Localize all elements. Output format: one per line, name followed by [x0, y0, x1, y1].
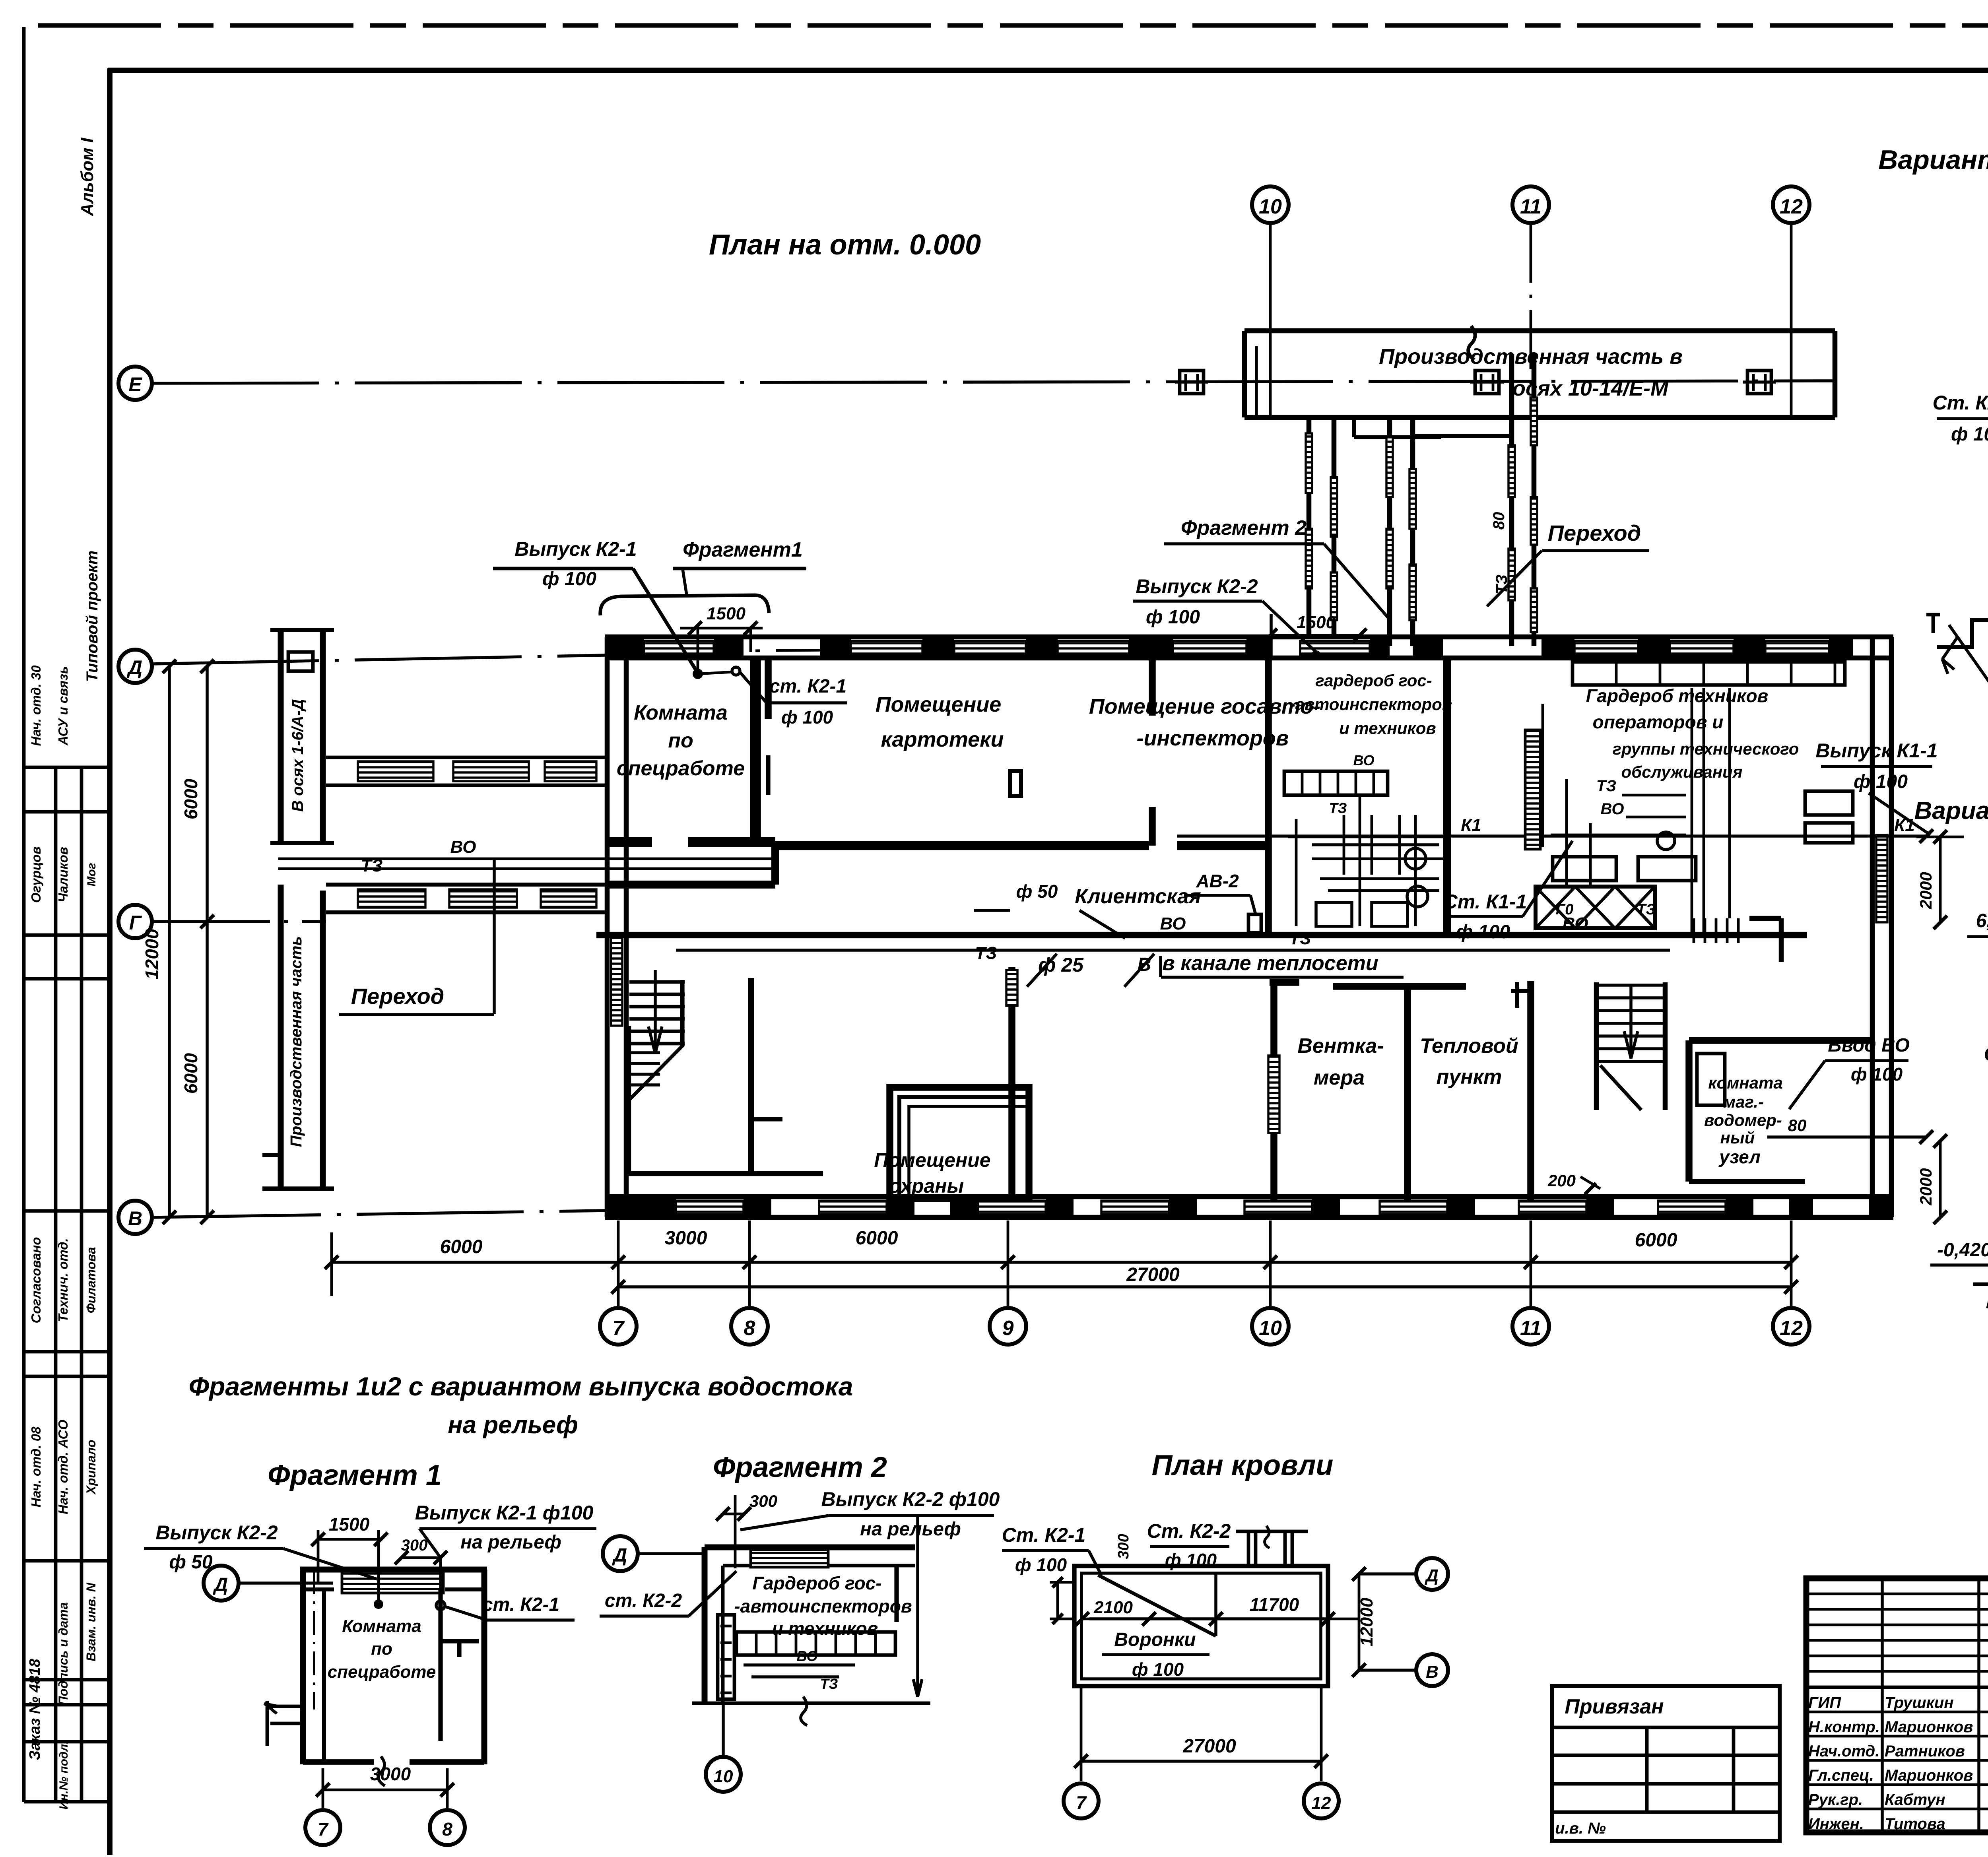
- svg-text:ТЗ: ТЗ: [975, 943, 997, 963]
- title signatures thin row 5: [1806, 1655, 1988, 1657]
- svg-text:Ин.№ подл.: Ин.№ подл.: [57, 1741, 70, 1810]
- svg-text:Выпуск К2-1: Выпуск К2-1: [514, 538, 637, 560]
- svg-text:Вариант выпуска водостока на р: Вариант выпуска водостока на рельеф: [1878, 145, 1988, 175]
- privyazan col line 2: [1732, 1727, 1736, 1812]
- fragment2 top wall inner: [723, 1564, 915, 1568]
- room spetsrabota bottom wall right part: [688, 837, 775, 847]
- perekhod A2 right wall: [1410, 417, 1415, 646]
- svg-text:Заказ № 4818: Заказ № 4818: [27, 1659, 43, 1760]
- roof bottom witness lines: [1080, 1686, 1083, 1781]
- axis column 12 circle (plan bottom): [1773, 1308, 1809, 1345]
- svg-text:2000: 2000: [1916, 872, 1935, 909]
- svg-text:В: В: [128, 1207, 142, 1230]
- wet core 1 circle fixture 2: [1407, 886, 1428, 907]
- svg-text:Переход: Переход: [1548, 520, 1641, 545]
- drawing frame left edge: [107, 68, 113, 1855]
- svg-text:9: 9: [1002, 1317, 1014, 1340]
- title signatures thin row 4: [1806, 1639, 1988, 1642]
- left stamp divider 6: [24, 1375, 110, 1378]
- wet core 1 pipe cross: [1320, 877, 1439, 880]
- schematic2 outfall arrow A: [1973, 1283, 1988, 1286]
- schematic1 outlet A arrow: [1942, 636, 1958, 659]
- title signatures thin row 2: [1806, 1608, 1988, 1611]
- admin top wall inner line: [605, 656, 1893, 661]
- roof axis V leader right: [1359, 1669, 1415, 1672]
- svg-text:Фрагменты 1и2 с вариантом выпу: Фрагменты 1и2 с вариантом выпуска водост…: [189, 1372, 853, 1401]
- middle vertical partition x=3190: [1265, 658, 1272, 938]
- axis column 10 circle (top): [1252, 186, 1289, 223]
- roof axis D leader right: [1359, 1572, 1415, 1576]
- svg-text:Ввод ВО: Ввод ВО: [1828, 1035, 1910, 1056]
- svg-text:80: 80: [1788, 1116, 1807, 1135]
- vertical pipe to Perekhod label: [493, 859, 496, 1014]
- svg-text:Ст. К2-1: Ст. К2-1: [1002, 1524, 1086, 1546]
- left corridor top cap: [270, 628, 334, 632]
- lower band bottom cap: [262, 1186, 334, 1191]
- vypusk K2-2 leader: [1262, 601, 1316, 652]
- bottom dim line row 1: [332, 1261, 1791, 1264]
- wall piece right of spetsrabota: [765, 658, 772, 719]
- fragment 2 callout leader: [1324, 544, 1390, 619]
- axis column 11 circle (plan bottom): [1512, 1308, 1549, 1345]
- svg-text:-инспекторов: -инспекторов: [1137, 726, 1289, 750]
- svg-text:В: В: [1426, 1662, 1439, 1682]
- svg-text:Фрагмент 1: Фрагмент 1: [268, 1459, 442, 1491]
- fragment1 riser2 vertical: [439, 1558, 442, 1605]
- shaft hatch strip: [1525, 730, 1540, 849]
- axis row G dash-dot line: [151, 920, 326, 923]
- st K2-1 underline: [767, 701, 847, 704]
- svg-text:Выпуск К2-2 ф100: Выпуск К2-2 ф100: [821, 1488, 1000, 1510]
- axis column 9 circle (plan bottom): [990, 1308, 1026, 1345]
- left dim line 12000: [168, 666, 171, 1217]
- fragment1 axis 7 circle: [305, 1810, 340, 1845]
- left stamp divider 10: [24, 1740, 110, 1744]
- fragment1 left inner partition: [322, 1589, 326, 1761]
- pomeschenie okhrany room inner2: [909, 1106, 1029, 1199]
- svg-text:Помещение: Помещение: [874, 1149, 990, 1171]
- left stamp divider 8: [24, 1678, 110, 1682]
- vvod VO underline: [1825, 1059, 1908, 1062]
- left vertical corridor (v osyah 1-6/A-D) left wall: [278, 630, 284, 843]
- svg-text:1500: 1500: [329, 1514, 370, 1535]
- axis column 9 witness line: [1007, 1221, 1010, 1308]
- dot to circle connector: [698, 672, 734, 674]
- title signatures row 3: [1806, 1759, 1988, 1762]
- dim 2000 vertical right lower: [1939, 1141, 1942, 1217]
- partition kartoteka/gosavto lower part: [1149, 807, 1156, 846]
- svg-text:Ратников: Ратников: [1885, 1743, 1965, 1760]
- vypusk K2-2 underline: [1133, 600, 1262, 603]
- svg-text:Выпуск К2-1 ф100: Выпуск К2-1 ф100: [415, 1502, 594, 1524]
- svg-text:спецработе: спецработе: [328, 1662, 436, 1682]
- svg-text:Ст. К2-1: Ст. К2-1: [1933, 392, 1988, 414]
- svg-text:Производственная часть: Производственная часть: [287, 936, 305, 1147]
- admin bottom wall outer line: [605, 1215, 1893, 1220]
- vodomerny uzel left wall: [1685, 1040, 1693, 1182]
- small window box in corridor top: [288, 652, 313, 671]
- axis column 12 line down to production part: [1790, 223, 1793, 417]
- svg-text:300: 300: [401, 1537, 428, 1554]
- title signatures row 0: [1806, 1686, 1988, 1689]
- fragment2 top window hatch: [751, 1550, 828, 1567]
- title signatures thin row 7: [1806, 1686, 1988, 1688]
- fragment2 top wall: [705, 1545, 915, 1550]
- vypusk K2-1 long diagonal leader: [633, 569, 698, 673]
- svg-text:на рельеф: на рельеф: [448, 1411, 578, 1439]
- svg-text:Взам. инв. N: Взам. инв. N: [84, 1582, 98, 1661]
- perekhod A2 window hatches: [1386, 437, 1393, 497]
- svg-text:8: 8: [442, 1819, 452, 1840]
- svg-text:Гардероб техников: Гардероб техников: [1586, 685, 1769, 706]
- svg-text:Ст. К2-1: Ст. К2-1: [1984, 1043, 1988, 1065]
- svg-text:ф 50: ф 50: [1016, 881, 1058, 902]
- svg-text:ф 100: ф 100: [542, 569, 596, 590]
- bottom dim line row 2 (27000): [618, 1285, 1791, 1288]
- wall stub right of spetsrabota: [766, 755, 770, 795]
- lockers row garderob tehnikov: [1573, 662, 1845, 685]
- svg-text:Вариант выпуска водостока в до: Вариант выпуска водостока в дождевую сет…: [1914, 797, 1988, 825]
- privyazan table outer: [1552, 1686, 1780, 1841]
- svg-text:Трушкин: Трушкин: [1885, 1694, 1954, 1711]
- svg-text:Клиентская: Клиентская: [1075, 885, 1201, 908]
- svg-text:Фрагмент 2: Фрагмент 2: [713, 1451, 887, 1483]
- klientskaya upper wall right part: [1177, 841, 1268, 850]
- svg-text:Вентка-: Вентка-: [1297, 1034, 1384, 1058]
- perekhod label leader: [1487, 551, 1542, 606]
- svg-text:6000: 6000: [856, 1228, 898, 1249]
- gallery upper wall line1: [326, 756, 605, 759]
- fragment1 outlet pipe left: [270, 1705, 301, 1708]
- svg-text:В осях 1-6/А-Д: В осях 1-6/А-Д: [289, 699, 307, 812]
- title signatures thin row 3: [1806, 1624, 1988, 1626]
- left stamp divider 7: [24, 1559, 110, 1563]
- svg-text:Альбом I: Альбом I: [78, 138, 97, 216]
- svg-text:маг.-: маг.-: [1723, 1092, 1764, 1111]
- stair hall inner L wall vertical: [626, 1026, 631, 1174]
- second witness vertical: [749, 628, 752, 652]
- fragment 1 callout underline: [673, 567, 806, 570]
- roof axis V circle: [1416, 1654, 1448, 1686]
- axis column 11 circle (top): [1512, 186, 1549, 223]
- svg-text:3000: 3000: [370, 1764, 411, 1784]
- svg-text:Титова: Титова: [1885, 1815, 1945, 1833]
- stair 2 enclosure right rail: [1663, 982, 1668, 1110]
- svg-text:Хрипало: Хрипало: [84, 1440, 98, 1495]
- axis column 10 circle (plan bottom): [1252, 1308, 1289, 1345]
- perekhod label underline: [1542, 549, 1649, 552]
- svg-text:ТЗ: ТЗ: [820, 1676, 838, 1692]
- fragment2 st K2-2 leader: [689, 1571, 736, 1616]
- svg-text:Помещение госавто-: Помещение госавто-: [1089, 695, 1320, 718]
- room spetsrabota bottom wall left part: [606, 837, 652, 847]
- entrance steps right block: [1693, 918, 1695, 943]
- left stamp divider 11: [24, 1800, 110, 1804]
- schematic1 outlet A cleanout T: [1926, 613, 1940, 617]
- perekhod B right wall: [1532, 354, 1537, 646]
- ventkamera/teplovoy divider wall: [1404, 986, 1411, 1200]
- svg-text:План кровли: План кровли: [1152, 1450, 1334, 1481]
- svg-text:Г: Г: [129, 912, 142, 934]
- svg-text:2000: 2000: [1916, 1168, 1935, 1205]
- svg-text:и.в. №: и.в. №: [1555, 1820, 1606, 1837]
- fragment2 vypusk leader: [740, 1515, 829, 1530]
- roof chimney break: [1265, 1526, 1270, 1548]
- svg-text:ф 100: ф 100: [1015, 1554, 1067, 1575]
- corridor upper wall (left block): [605, 881, 775, 889]
- svg-text:Выпуск К2-2: Выпуск К2-2: [155, 1521, 278, 1544]
- ventkamera/teplovoy top wall segment 2 (T-bar): [1333, 983, 1466, 990]
- svg-text:ТЗ: ТЗ: [1289, 929, 1311, 948]
- wet core 2 vertical pipes: [1691, 688, 1693, 934]
- fragment2 lockers row: [736, 1632, 895, 1655]
- K1 end tick: [1920, 829, 1933, 843]
- perekhod A1 right wall: [1332, 417, 1337, 636]
- v kanale teploseti left bracket: [1159, 956, 1162, 977]
- production part left wall inner: [1255, 346, 1258, 417]
- svg-text:ТЗ: ТЗ: [1596, 777, 1616, 795]
- schematic1 riser A outlet elbow: [1937, 577, 1988, 647]
- axis column 12 circle (top): [1773, 186, 1809, 223]
- fragment 1 leader to bracket: [683, 569, 687, 595]
- schematic1 vypusk K2-2 f50 leader: [1949, 625, 1988, 684]
- roof mid horizontal line: [1089, 1617, 1328, 1620]
- svg-text:Д: Д: [126, 656, 142, 679]
- bench rect 2: [1638, 857, 1696, 881]
- left stamp divider 2: [24, 933, 110, 937]
- stair 1 upper flight treads: [629, 980, 685, 984]
- admin right wall inner: [1870, 637, 1875, 1217]
- svg-text:Переход: Переход: [351, 984, 445, 1009]
- production part notch below bottom wall: [1352, 417, 1356, 437]
- fragment2 bench pipes: [744, 1663, 855, 1667]
- axis row Г circle: [118, 905, 152, 938]
- svg-text:гардероб гос-: гардероб гос-: [1315, 671, 1432, 690]
- svg-text:ф 100: ф 100: [1851, 1064, 1903, 1085]
- privyazan row line y=4558: [1552, 1810, 1780, 1814]
- f50 leader: [974, 909, 1010, 912]
- admin bottom wall window strips: [676, 1201, 744, 1214]
- pipe line T3 along corridor: [278, 858, 775, 860]
- svg-text:Гл.спец.: Гл.спец.: [1808, 1767, 1874, 1784]
- production part right wall: [1833, 331, 1838, 417]
- fragment 2 callout underline: [1164, 542, 1324, 545]
- svg-text:7: 7: [613, 1317, 625, 1340]
- production part break squiggle: [1468, 326, 1475, 360]
- fragment2 bottom break line: [692, 1702, 930, 1705]
- svg-text:11: 11: [1520, 195, 1541, 218]
- svg-text:8: 8: [744, 1317, 755, 1340]
- svg-text:в канале теплосети: в канале теплосети: [1162, 952, 1378, 975]
- axis row D dash-dot line: [152, 655, 605, 664]
- svg-text:Гардероб гос-: Гардероб гос-: [752, 1573, 881, 1593]
- svg-text:План на отм. 0.000: План на отм. 0.000: [709, 229, 981, 261]
- fragment1 witness lines: [322, 1768, 324, 1808]
- svg-text:АСУ и связь: АСУ и связь: [56, 666, 70, 745]
- fragment1 bottom wall left: [303, 1759, 374, 1765]
- svg-text:2100: 2100: [1093, 1598, 1133, 1617]
- svg-text:27000: 27000: [1182, 1736, 1236, 1757]
- riser witness vertical: [697, 628, 699, 674]
- roof axis 12 circle: [1304, 1783, 1339, 1818]
- axis row D dash-dot inside plan: [620, 646, 1268, 652]
- partition kartoteka/gosavto upper part: [1149, 658, 1156, 716]
- axis row V dash-dot line: [154, 1211, 605, 1217]
- fragment1 riser dot: [374, 1599, 383, 1609]
- partition wall x=2545 (klientskaya/okhrana zone): [1008, 967, 1015, 1197]
- axis row В circle: [118, 1201, 152, 1234]
- axis column 11 witness line: [1530, 1221, 1532, 1308]
- axis row Д circle: [118, 650, 152, 683]
- perekhod corridor wall upper (to admin): [326, 883, 605, 887]
- left vertical corridor right wall: [320, 630, 326, 843]
- svg-text:Технич. отд.: Технич. отд.: [56, 1238, 70, 1322]
- svg-text:6000: 6000: [181, 1053, 201, 1094]
- svg-text:Марионков: Марионков: [1885, 1767, 1973, 1784]
- left stamp strip column line 1: [54, 767, 58, 1802]
- production part top wall: [1244, 328, 1835, 334]
- svg-text:ф 50: ф 50: [169, 1552, 213, 1573]
- svg-text:Помещение: Помещение: [876, 693, 1002, 716]
- svg-text:ф 100: ф 100: [781, 707, 833, 728]
- stair 2 enclosure left rail: [1594, 982, 1599, 1110]
- svg-text:80: 80: [1490, 512, 1508, 530]
- svg-text:Нач. отд. 08: Нач. отд. 08: [29, 1426, 43, 1508]
- stair 1 arrow line: [654, 970, 657, 1052]
- left stamp divider 9: [24, 1703, 110, 1707]
- svg-text:ТЗ: ТЗ: [361, 856, 382, 875]
- title signatures thin row 6: [1806, 1670, 1988, 1673]
- fragment2 right wall: [894, 1566, 899, 1622]
- stair 1 diagonal: [629, 1045, 683, 1100]
- title block outer rect: [1806, 1578, 1988, 1832]
- stair 1 right rail: [680, 980, 684, 1046]
- st K1-1 leader: [1523, 841, 1573, 916]
- admin bottom wall inner line: [605, 1194, 1893, 1199]
- fragment1 riser2 circle: [436, 1601, 445, 1610]
- pomeschenie okhrany room outer: [890, 1087, 1029, 1199]
- f25 slant line left: [1027, 954, 1057, 987]
- left stamp divider 1: [24, 810, 110, 814]
- svg-text:10: 10: [1259, 195, 1282, 218]
- T3 main line: [676, 949, 1670, 952]
- fragment2 witness: [734, 1495, 737, 1568]
- svg-text:Привязан: Привязан: [1565, 1695, 1664, 1718]
- admin top wall solid piers: [605, 637, 644, 658]
- fragment2 vypusk vertical line: [916, 1515, 919, 1694]
- privyazan row line y=4415: [1552, 1754, 1780, 1757]
- svg-text:пункт: пункт: [1437, 1065, 1502, 1089]
- svg-text:ВО: ВО: [450, 837, 476, 857]
- svg-text:ВО: ВО: [1160, 914, 1186, 933]
- svg-text:Подпись и дата: Подпись и дата: [56, 1602, 70, 1705]
- svg-text:узел: узел: [1718, 1147, 1761, 1167]
- left stamp strip column line 2: [80, 767, 83, 1802]
- title signatures thin row 1: [1806, 1593, 1988, 1595]
- svg-text:7: 7: [318, 1819, 329, 1840]
- production part bottom wall: [1244, 415, 1835, 420]
- svg-text:ст. К2-1: ст. К2-1: [482, 1594, 559, 1615]
- sheet top dashed trim line: [38, 23, 1988, 27]
- axis column 10 witness line: [1269, 1221, 1272, 1308]
- wet core 1 extra clutter lines: [1295, 819, 1298, 926]
- svg-text:спецработе: спецработе: [617, 757, 745, 780]
- privyazan col line 1: [1645, 1727, 1649, 1812]
- svg-text:Д: Д: [213, 1574, 228, 1595]
- roof right dim vertical 12000: [1358, 1574, 1361, 1670]
- svg-text:300: 300: [749, 1492, 777, 1510]
- left corridor bottom cap: [270, 841, 334, 845]
- ventkamera left wall hatch block: [1268, 1056, 1279, 1133]
- roof left witness bracket: [1056, 1582, 1059, 1619]
- left stamp divider 3: [24, 977, 110, 981]
- svg-text:1500: 1500: [707, 604, 745, 623]
- fragment2 riser strip: [718, 1615, 734, 1699]
- svg-text:Инжен.: Инжен.: [1808, 1815, 1864, 1833]
- svg-text:ф 100: ф 100: [1456, 922, 1510, 943]
- fragment2 left wall inner: [721, 1566, 725, 1703]
- stair hall thin partition: [748, 978, 754, 1174]
- axis row E dash-dot line: [152, 381, 1835, 383]
- svg-text:Согласовано: Согласовано: [29, 1237, 43, 1323]
- svg-text:12000: 12000: [142, 929, 162, 980]
- axis column 7 circle (plan bottom): [600, 1308, 637, 1345]
- AV-2 underline: [1184, 894, 1250, 897]
- svg-text:Кабтун: Кабтун: [1885, 1791, 1945, 1808]
- svg-text:Чаликов: Чаликов: [56, 847, 70, 902]
- svg-text:1500: 1500: [1297, 613, 1336, 632]
- svg-text:обслуживания: обслуживания: [1621, 763, 1743, 781]
- AV-2 riser symbol: [1250, 895, 1256, 914]
- room spetsrabota right wall: [750, 658, 761, 847]
- svg-text:ф 100: ф 100: [1132, 1659, 1184, 1680]
- svg-text:охраны: охраны: [889, 1175, 964, 1197]
- stair 1 lower flight treads: [627, 1051, 660, 1054]
- svg-text:3000: 3000: [665, 1228, 707, 1249]
- fragment bracket: [600, 595, 769, 615]
- svg-text:ТЗ: ТЗ: [1637, 901, 1656, 918]
- title signatures row 4: [1806, 1783, 1988, 1786]
- teplovoy right wall: [1527, 981, 1534, 1200]
- svg-text:Е: Е: [128, 373, 142, 396]
- vypusk K2-1 underline: [493, 567, 633, 570]
- wet core 2 extra clutter: [1551, 834, 1686, 836]
- svg-text:ст. К2-2: ст. К2-2: [605, 1590, 682, 1611]
- svg-text:200: 200: [1547, 1171, 1576, 1190]
- perekhod B window hatches: [1508, 445, 1515, 497]
- svg-text:ТЗ: ТЗ: [1329, 800, 1347, 816]
- left stamp divider 0: [24, 766, 110, 769]
- gallery upper wall line2: [326, 784, 605, 787]
- fragment2 axis D circle: [603, 1536, 638, 1571]
- perekhod A1 window hatches: [1306, 433, 1312, 493]
- fragment2 left wall: [702, 1547, 708, 1703]
- svg-text:Д: Д: [1424, 1566, 1439, 1585]
- admin left wall outer: [605, 637, 610, 1217]
- st K2-1 leader: [740, 673, 767, 703]
- svg-text:27000: 27000: [1126, 1264, 1180, 1285]
- production part left wall: [1242, 331, 1247, 417]
- svg-text:комната: комната: [1708, 1073, 1782, 1092]
- svg-text:К1: К1: [1461, 815, 1481, 835]
- title signatures col 2: [1977, 1578, 1980, 1832]
- svg-text:на рельеф: на рельеф: [860, 1519, 961, 1540]
- pipe line VO along corridor: [278, 867, 775, 870]
- fragment1 vypusk K2-2 leader: [283, 1548, 377, 1579]
- svg-text:Тепловой: Тепловой: [1420, 1034, 1518, 1058]
- VO main line (thick): [596, 932, 1807, 938]
- svg-text:Г0: Г0: [1556, 901, 1573, 918]
